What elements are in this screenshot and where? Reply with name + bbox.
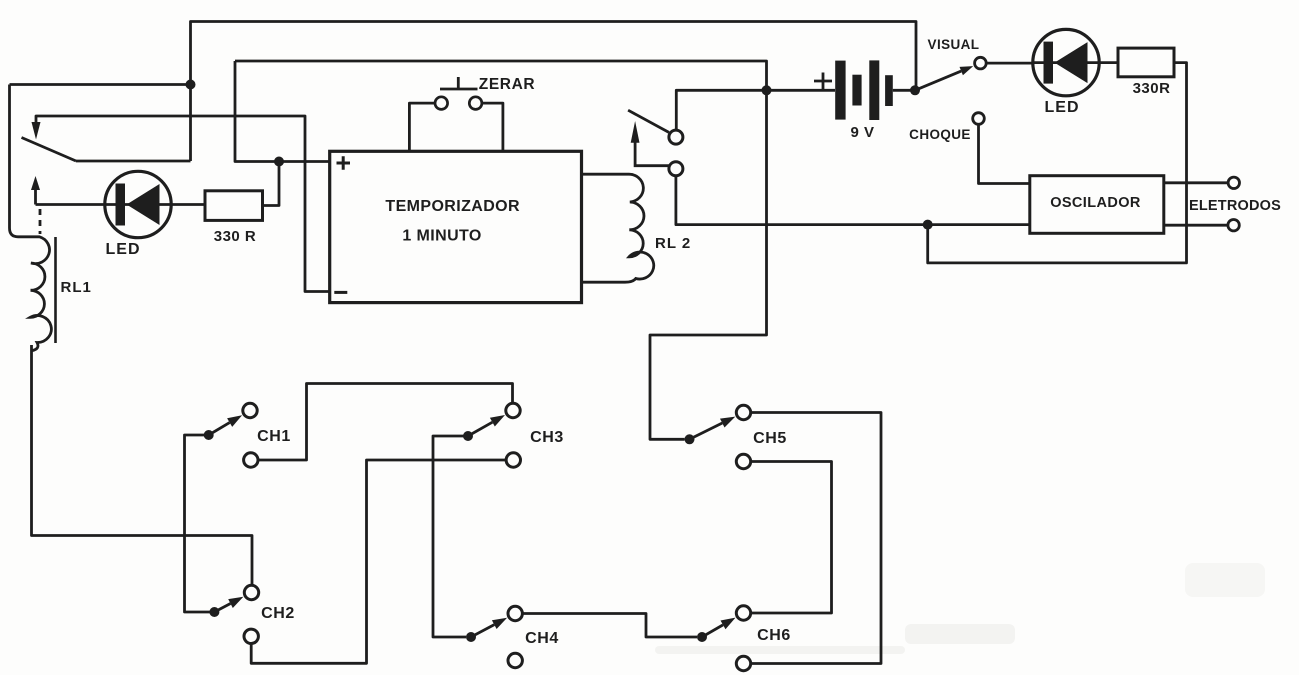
switch CH4 pole — [466, 632, 476, 642]
label + terminal of timer — [337, 156, 351, 169]
node junction battery + rail — [762, 85, 772, 95]
arrow up (RL1 armature) — [31, 176, 40, 190]
node junction timer + rail — [274, 157, 284, 167]
contact electrode bottom — [1228, 220, 1239, 231]
label battery + — [814, 73, 832, 90]
RL2 contact upper — [669, 130, 683, 144]
switch VISUAL blade — [915, 71, 961, 90]
relay coil RL2 and wires — [582, 174, 654, 282]
LED D1 — [105, 171, 171, 237]
decorative scan smudges — [655, 563, 1265, 654]
wire ZERAR right leg — [482, 103, 503, 151]
switch CH3 blade — [468, 422, 492, 436]
svg-text:CH6: CH6 — [757, 627, 791, 644]
switch CH6 contact upper — [736, 606, 750, 620]
wire R1 to timer + rail — [263, 162, 280, 206]
battery B1 plate short 2 — [885, 75, 893, 106]
wire battery to switch node — [893, 89, 915, 92]
svg-text:CH1: CH1 — [257, 428, 291, 445]
switch CH2 contact upper — [244, 585, 258, 599]
wire LED D1 to R1 — [171, 203, 206, 206]
wire CH3 lower to CH2 lower — [251, 460, 506, 663]
label - terminal of timer — [334, 291, 347, 294]
switch CH2 contact lower — [244, 629, 258, 643]
wire RL1 left vertical — [10, 85, 24, 237]
arrow up (RL2 armature) — [631, 121, 640, 143]
dashed mechanical link RL1 — [39, 209, 42, 234]
switch CH5 contact lower — [736, 454, 750, 468]
resistor R2 330R — [1118, 48, 1174, 77]
pushbutton ZERAR contact right — [469, 97, 482, 110]
switch CH3 pole — [463, 431, 473, 441]
battery B1 9V plate long 1 — [835, 61, 845, 120]
wire timer + branch down-left — [235, 61, 330, 162]
svg-text:RL 2: RL 2 — [655, 235, 691, 252]
wire RL1 top to junction — [10, 83, 191, 86]
contact CHOQUE — [973, 113, 985, 125]
wire oscillator output bottom — [1164, 224, 1228, 227]
block U1 TEMPORIZADOR — [330, 151, 582, 302]
relay coil RL1 — [23, 237, 51, 351]
wire RL1 bottom to CH2 — [32, 345, 253, 586]
battery B1 plate long 2 — [869, 60, 879, 120]
wire CH1 lower to CH3 upper — [258, 384, 513, 461]
wire to timer minus — [36, 116, 330, 292]
switch CH1 contact lower — [244, 453, 258, 467]
pushbutton ZERAR contact left — [435, 97, 448, 110]
switch CH5 pole — [685, 434, 695, 444]
svg-text:ZERAR: ZERAR — [479, 76, 535, 93]
switch CH1 contact upper — [243, 403, 257, 417]
svg-text:VISUAL: VISUAL — [928, 37, 980, 52]
switch CH6 blade — [702, 625, 723, 637]
switch CH4 contact upper — [508, 606, 522, 620]
switch CH4 contact lower — [508, 653, 522, 667]
switch CH3 contact upper — [506, 403, 520, 417]
switch CH6 contact lower — [736, 656, 750, 670]
wire CH1 pole to CH2 pole — [185, 435, 215, 612]
svg-text:OSCILADOR: OSCILADOR — [1050, 195, 1141, 211]
svg-text:ELETRODOS: ELETRODOS — [1189, 198, 1281, 214]
switch CH3 contact lower — [506, 453, 520, 467]
wire CH4 upper to CH6 pole — [522, 614, 697, 638]
node junction at top-left rail — [186, 80, 196, 90]
wire LED D1 anode — [36, 203, 107, 206]
battery B1 plate short 1 — [852, 75, 861, 106]
svg-text:LED: LED — [106, 241, 141, 258]
switch CH1 blade — [209, 423, 230, 435]
RL2 contact lower — [669, 162, 683, 176]
wire second rail (timer + rail to battery +) — [235, 61, 767, 90]
wire top rail (left relay contact to battery node) — [191, 22, 917, 162]
svg-text:TEMPORIZADOR: TEMPORIZADOR — [385, 198, 520, 215]
node junction battery - switch — [910, 85, 920, 95]
wire ZERAR left leg — [409, 103, 435, 151]
switch VISUAL contact — [975, 57, 987, 69]
switch CH5 blade — [690, 423, 723, 439]
svg-text:1 MINUTO: 1 MINUTO — [402, 228, 481, 245]
node junction oscillator rail — [923, 220, 933, 230]
svg-text:9 V: 9 V — [850, 124, 874, 141]
svg-text:RL1: RL1 — [61, 279, 92, 296]
svg-text:LED: LED — [1045, 99, 1080, 116]
arrow down at relay contact — [32, 122, 41, 140]
LED D2 — [1033, 29, 1099, 95]
RL1 core bar — [54, 237, 57, 343]
switch CH2 blade — [214, 604, 230, 613]
wire CH5 lower to CH6 upper — [751, 462, 832, 614]
wire VISUAL to LED D2 — [986, 62, 1033, 65]
wire battery+ down to RL2 contact — [676, 90, 835, 130]
RL2 switch blade — [628, 110, 669, 132]
svg-text:CHOQUE: CHOQUE — [909, 127, 971, 142]
svg-text:CH3: CH3 — [530, 429, 564, 446]
svg-text:CH2: CH2 — [261, 605, 295, 622]
wire R2 down to oscillator bottom rail — [928, 63, 1187, 263]
pushbutton ZERAR actuator — [440, 77, 478, 89]
switch CH6 pole — [697, 632, 707, 642]
wire RL2 lower contact to oscillator rail — [676, 176, 1030, 225]
svg-text:CH5: CH5 — [753, 430, 787, 447]
svg-text:330R: 330R — [1133, 80, 1171, 97]
contact electrode top — [1228, 177, 1239, 188]
block U2 OSCILADOR — [1030, 176, 1164, 234]
switch CH2 pole — [209, 607, 219, 617]
switch CH5 contact upper — [736, 405, 750, 419]
wire battery rail to CH5 — [650, 90, 767, 439]
wire oscillator output top — [1164, 181, 1228, 184]
svg-text:CH4: CH4 — [525, 630, 559, 647]
switch CH4 blade — [471, 625, 494, 637]
relay contact switch S1 blade — [22, 138, 77, 162]
wire CH3 pole to CH4 pole — [433, 436, 468, 637]
svg-text:330 R: 330 R — [214, 228, 257, 245]
wire LED D2 to R2 — [1099, 61, 1118, 64]
wire CH5 upper to CH6 lower — [751, 413, 882, 664]
switch CH1 pole — [204, 430, 214, 440]
resistor R1 330R — [205, 191, 263, 221]
wire CHOQUE to oscillator — [979, 124, 1030, 183]
relay contact switch S1 wire — [76, 160, 191, 163]
